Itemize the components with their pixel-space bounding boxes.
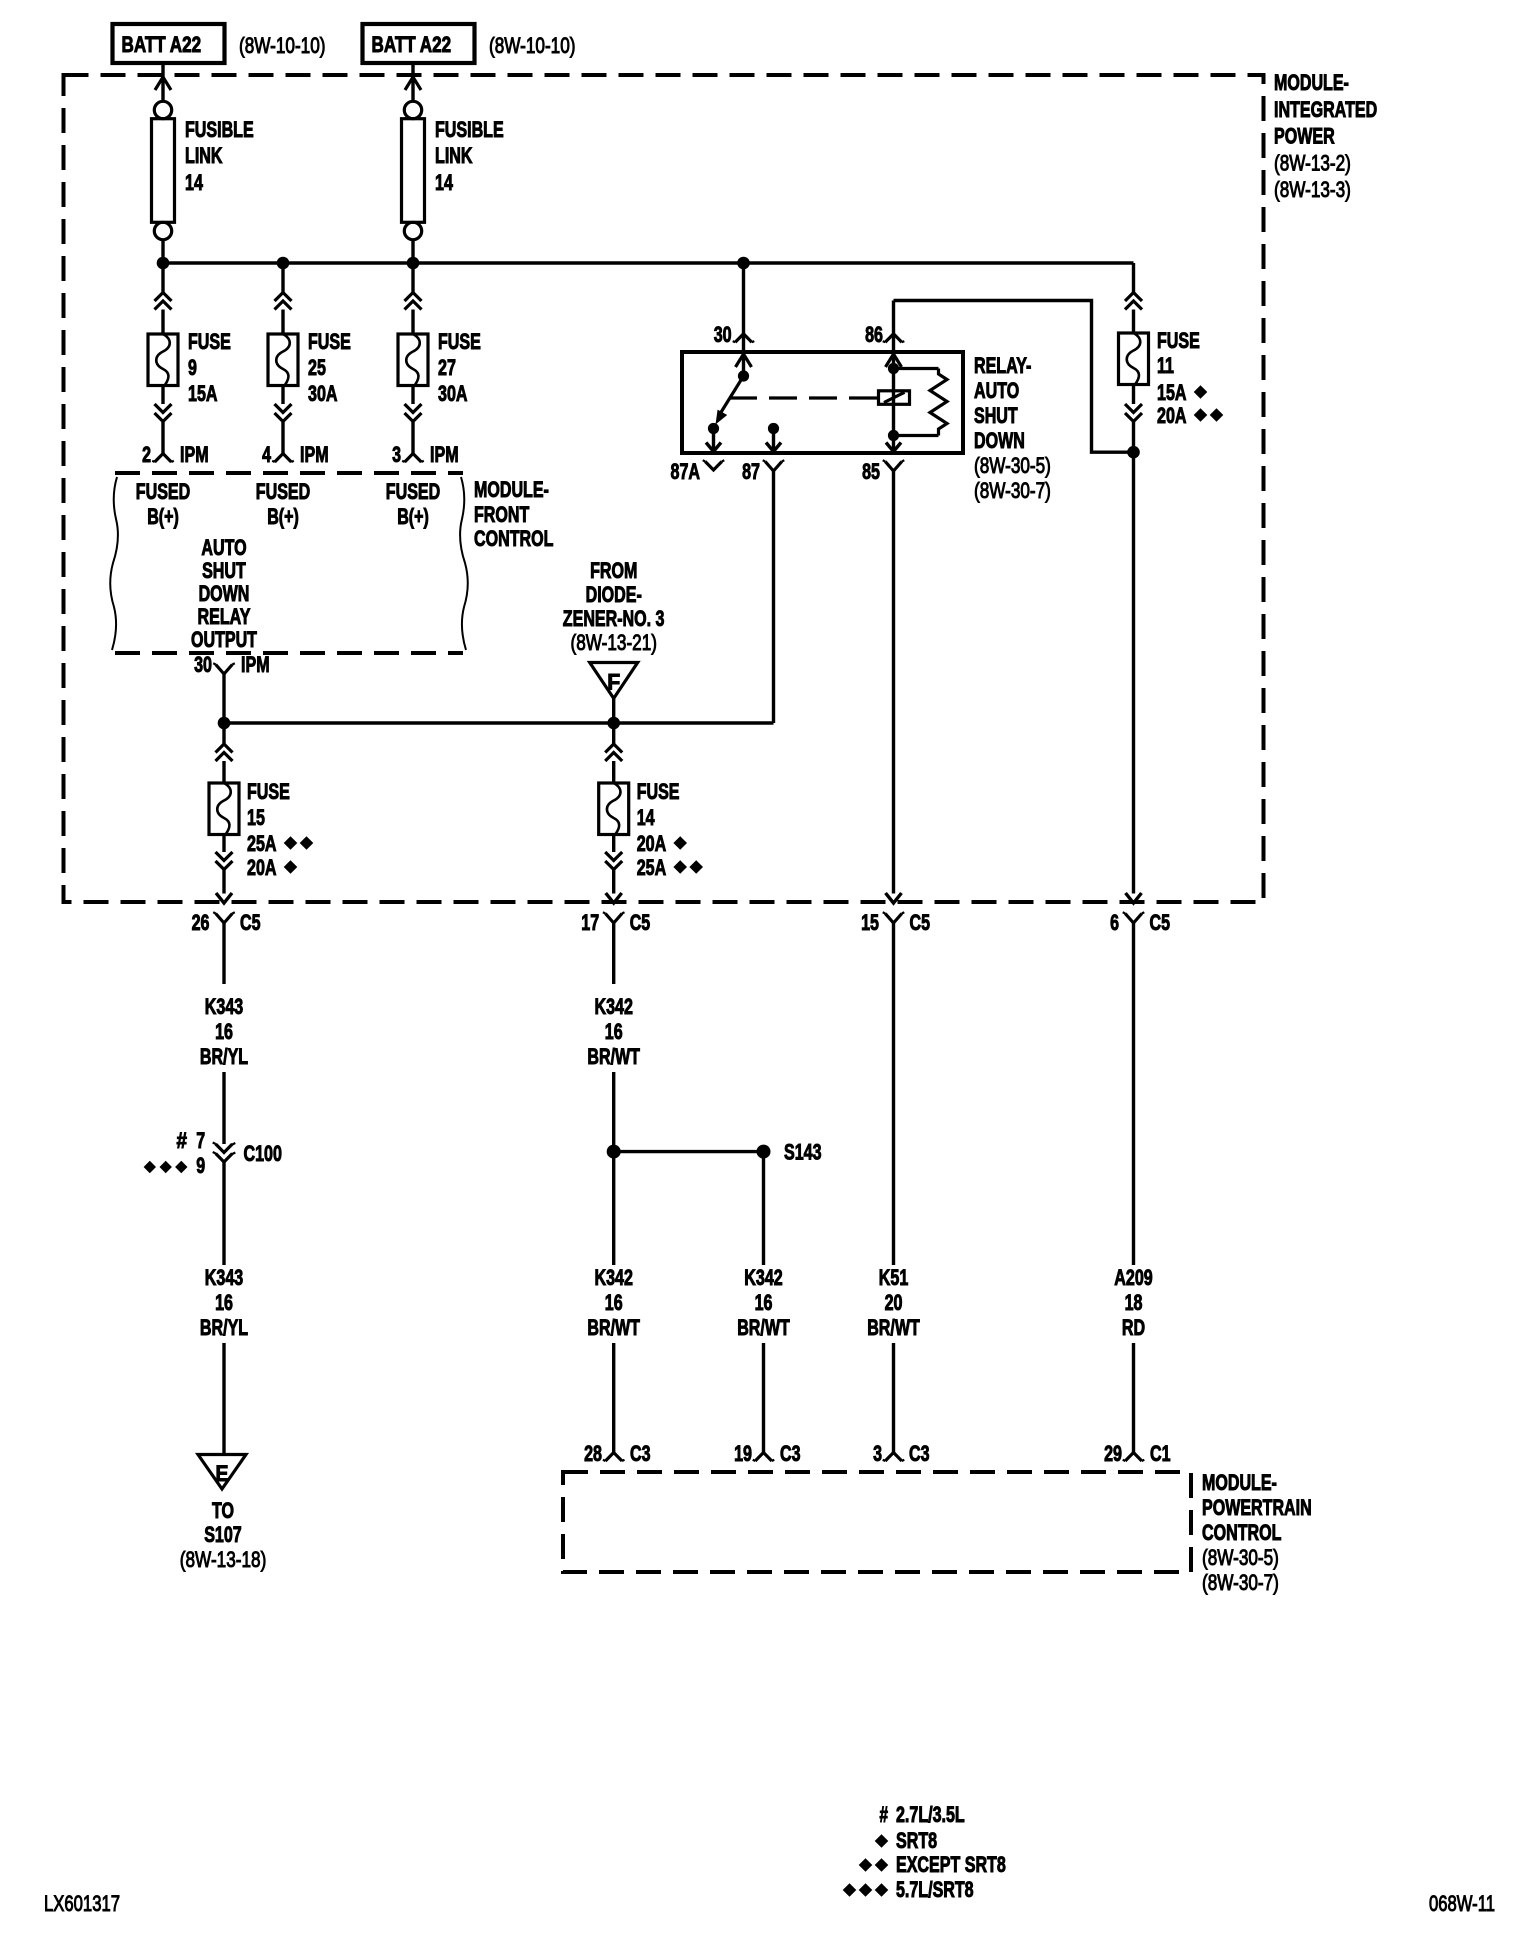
wire K342 branch to pin 19 xyxy=(762,1343,765,1453)
relay R1 auto shut down: outline xyxy=(682,352,963,453)
connector chevrons (down) xyxy=(405,404,422,413)
svg-text:FUSED: FUSED xyxy=(386,479,440,504)
relay pin 87A node xyxy=(708,423,719,434)
splice S143 tie wire xyxy=(614,1150,764,1153)
junction bus/fuse-25 xyxy=(277,257,290,270)
junction bus/fusible-link-1 xyxy=(157,257,170,270)
svg-text:LX601317: LX601317 xyxy=(44,1891,120,1916)
svg-text:FUSE: FUSE xyxy=(637,779,680,804)
connector 19 C3 xyxy=(755,1453,772,1462)
junction fuse 15 feed xyxy=(218,717,231,730)
fuse 11 xyxy=(1119,333,1149,385)
wire K51 upper xyxy=(892,923,895,1265)
svg-text:20A: 20A xyxy=(247,855,277,880)
svg-text:IPM: IPM xyxy=(241,652,270,677)
wire fusible link to bus xyxy=(411,240,414,263)
svg-text:11: 11 xyxy=(1157,353,1174,378)
connector 17 C5 xyxy=(605,914,622,924)
connector pin 4 IPM xyxy=(275,454,292,463)
wire F to junction xyxy=(612,698,615,723)
connector chevrons (up) xyxy=(605,744,622,753)
module-powertrain control dashed boundary xyxy=(563,1472,1191,1572)
svg-text:25A: 25A xyxy=(247,831,277,856)
relay actuator (coil core symbol) xyxy=(879,391,910,405)
svg-text:BR/WT: BR/WT xyxy=(867,1315,920,1340)
svg-text:25: 25 xyxy=(308,355,326,380)
svg-text:BR/YL: BR/YL xyxy=(200,1044,248,1069)
svg-text:TO: TO xyxy=(212,1498,234,1523)
wire S143 branch down xyxy=(762,1152,765,1265)
wire xyxy=(612,870,615,894)
fuse 27 30A xyxy=(398,334,428,386)
svg-text:20A: 20A xyxy=(1157,403,1187,428)
svg-text:INTEGRATED: INTEGRATED xyxy=(1274,97,1377,122)
wire bus to relay pin 30 xyxy=(742,263,745,352)
svg-text:14: 14 xyxy=(185,170,203,195)
relay pin 30 internal arrow xyxy=(736,354,752,367)
connector pin 2 IPM xyxy=(155,454,172,463)
svg-text:20: 20 xyxy=(885,1290,903,1315)
fuse 14 xyxy=(599,783,629,835)
svg-text:BATT A22: BATT A22 xyxy=(372,32,452,57)
connector chevrons (up) xyxy=(405,293,422,302)
svg-text:86: 86 xyxy=(865,322,883,347)
connector pin 30 IPM xyxy=(216,665,233,675)
svg-text:LINK: LINK xyxy=(185,143,223,168)
svg-text:18: 18 xyxy=(1125,1290,1143,1315)
connector chevrons (up) xyxy=(275,293,292,302)
fusible link 14 at x=163 xyxy=(154,101,171,118)
wire fuse 11 down to C5 xyxy=(1132,452,1135,893)
svg-text:C5: C5 xyxy=(1150,910,1171,935)
svg-text:FUSED: FUSED xyxy=(256,479,310,504)
svg-text:BR/YL: BR/YL xyxy=(200,1315,248,1340)
svg-text:BR/WT: BR/WT xyxy=(737,1315,790,1340)
power feed box BATT A22 (left) xyxy=(113,24,225,63)
svg-text:K343: K343 xyxy=(205,994,243,1019)
svg-text:28: 28 xyxy=(584,1441,602,1466)
junction bus/relay pin 30 xyxy=(737,257,750,270)
svg-text:CONTROL: CONTROL xyxy=(1202,1520,1281,1545)
wire below fuse xyxy=(222,835,225,853)
wire BATT to fusible link at x=413 xyxy=(411,63,414,102)
wire below fuse xyxy=(281,386,284,405)
svg-text:14: 14 xyxy=(435,170,453,195)
wire A209 upper xyxy=(1132,923,1135,1265)
svg-text:IPM: IPM xyxy=(180,442,209,467)
svg-text:RELAY: RELAY xyxy=(198,604,251,629)
svg-text:20A: 20A xyxy=(637,831,667,856)
wire xyxy=(1132,310,1135,334)
wire relay pin 86 to fuse 11 output xyxy=(894,301,1134,453)
svg-text:3: 3 xyxy=(392,442,401,467)
wire xyxy=(411,310,414,335)
svg-text:C5: C5 xyxy=(630,910,651,935)
svg-text:30A: 30A xyxy=(308,381,338,406)
svg-text:15: 15 xyxy=(247,805,265,830)
off-page connector E (to S107) xyxy=(198,1455,246,1490)
svg-text:19: 19 xyxy=(734,1441,752,1466)
svg-text:(8W-13-18): (8W-13-18) xyxy=(180,1547,266,1572)
connector chevrons (down) xyxy=(216,852,233,861)
svg-text:C100: C100 xyxy=(244,1141,282,1166)
svg-text:ZENER-NO. 3: ZENER-NO. 3 xyxy=(563,606,665,631)
svg-text:K51: K51 xyxy=(879,1265,909,1290)
relay pin 87 node xyxy=(768,423,779,434)
relay pin 85 connector xyxy=(885,462,902,472)
svg-text:16: 16 xyxy=(605,1290,623,1315)
svg-text:#: # xyxy=(177,1128,188,1153)
svg-text:DOWN: DOWN xyxy=(199,581,250,606)
svg-text:DOWN: DOWN xyxy=(974,428,1025,453)
svg-text:C1: C1 xyxy=(1150,1441,1171,1466)
svg-text:16: 16 xyxy=(215,1290,233,1315)
svg-text:F: F xyxy=(607,670,620,695)
svg-text:30A: 30A xyxy=(438,381,468,406)
svg-text:85: 85 xyxy=(862,459,880,484)
connector 28 C3 xyxy=(605,1453,622,1462)
wire below fuse xyxy=(411,386,414,405)
svg-text:FRONT: FRONT xyxy=(474,502,530,527)
wire C100 down xyxy=(222,1162,225,1265)
module-front control dashed boundary (torn box) xyxy=(115,471,463,475)
svg-text:3: 3 xyxy=(873,1441,882,1466)
svg-text:B(+): B(+) xyxy=(267,504,299,529)
wire below fuse 11 xyxy=(1132,385,1135,405)
svg-text:IPM: IPM xyxy=(430,442,459,467)
svg-text:17: 17 xyxy=(581,910,599,935)
wire K342 upper xyxy=(612,923,615,984)
svg-text:K342: K342 xyxy=(595,994,633,1019)
relay pin 30 connector xyxy=(735,334,752,343)
wire K343 to splice S107 xyxy=(222,1343,225,1455)
wire 87A node to box edge xyxy=(712,429,715,452)
svg-text:(8W-13-21): (8W-13-21) xyxy=(571,630,658,655)
wire junction to fuse 14 xyxy=(612,723,615,744)
wire K51 to pin 3 xyxy=(892,1343,895,1453)
relay coil wire xyxy=(892,369,895,436)
relay pin 87A stub connector xyxy=(705,462,722,471)
wire A209 to pin 29 xyxy=(1132,1343,1135,1453)
inline connector C100 xyxy=(216,1144,233,1153)
svg-text:16: 16 xyxy=(755,1290,773,1315)
svg-text:(8W-30-5): (8W-30-5) xyxy=(1202,1545,1279,1570)
svg-text:(8W-10-10): (8W-10-10) xyxy=(489,33,576,58)
wire xyxy=(161,310,164,335)
relay pin 87 connector xyxy=(765,462,782,472)
wire xyxy=(281,310,284,335)
svg-text:CONTROL: CONTROL xyxy=(474,526,553,551)
wire fusible link to bus xyxy=(161,240,164,263)
svg-text:87: 87 xyxy=(742,459,760,484)
svg-text:K342: K342 xyxy=(595,1265,633,1290)
connector 15 C5 xyxy=(885,914,902,924)
bus wire (battery feed) xyxy=(163,261,1134,265)
wire K342 to pin 28 xyxy=(612,1343,615,1453)
svg-text:FUSE: FUSE xyxy=(308,329,351,354)
relay switch common node xyxy=(738,370,749,381)
svg-text:E: E xyxy=(216,1461,229,1486)
wire relay pin 87 down to junction xyxy=(772,471,775,723)
svg-text:30: 30 xyxy=(714,322,732,347)
svg-text:FUSIBLE: FUSIBLE xyxy=(185,117,254,142)
fuse 15 xyxy=(209,783,239,835)
svg-text:SRT8: SRT8 xyxy=(896,1828,937,1853)
wire K343 upper xyxy=(222,923,225,984)
svg-text:30: 30 xyxy=(194,652,212,677)
wire relay pin 85 down to C5 xyxy=(892,471,895,894)
connector 26 C5 xyxy=(216,914,233,924)
svg-text:7: 7 xyxy=(196,1128,205,1153)
junction fuse 11 / relay 86 wire xyxy=(1127,446,1140,459)
svg-text:BATT A22: BATT A22 xyxy=(122,32,202,57)
svg-text:27: 27 xyxy=(438,355,456,380)
wire xyxy=(161,422,164,454)
wire 87 node to box edge xyxy=(772,429,775,452)
svg-text:FROM: FROM xyxy=(590,558,637,583)
wire bus corner down to fuse 11 xyxy=(1132,263,1135,293)
connector pin 3 IPM xyxy=(405,454,422,463)
svg-text:POWER: POWER xyxy=(1274,124,1335,149)
svg-text:S107: S107 xyxy=(204,1522,242,1547)
svg-text:29: 29 xyxy=(1104,1441,1122,1466)
wire pin 86 to coil top xyxy=(892,354,895,369)
svg-text:C5: C5 xyxy=(240,910,261,935)
svg-text:C5: C5 xyxy=(910,910,931,935)
junction diode-zener feed xyxy=(607,717,620,730)
connector chevrons (down) xyxy=(1125,404,1142,413)
wire BATT to fusible link at x=163 xyxy=(161,63,164,102)
relay pin 86 connector xyxy=(885,334,902,343)
svg-text:9: 9 xyxy=(188,355,197,380)
svg-text:FUSE: FUSE xyxy=(1157,328,1200,353)
connector chevrons (up) xyxy=(216,744,233,753)
wire pin 30 to switch common xyxy=(742,354,745,376)
connector chevrons (down) xyxy=(605,852,622,861)
wire xyxy=(1132,422,1135,453)
wire xyxy=(222,761,225,783)
svg-text:BR/WT: BR/WT xyxy=(587,1315,640,1340)
wire junction to fuse 15 xyxy=(222,723,225,744)
wire xyxy=(411,422,414,454)
svg-text:(8W-13-2): (8W-13-2) xyxy=(1274,151,1351,176)
fuse 9 15A xyxy=(148,334,178,386)
fusible link 14 at x=413 xyxy=(404,101,421,118)
svg-text:2: 2 xyxy=(142,442,151,467)
wire coil to pin 85 edge xyxy=(892,436,895,452)
svg-text:FUSIBLE: FUSIBLE xyxy=(435,117,504,142)
svg-text:OUTPUT: OUTPUT xyxy=(191,627,257,652)
svg-text:6: 6 xyxy=(1110,910,1119,935)
svg-text:C3: C3 xyxy=(630,1441,651,1466)
svg-text:RELAY-: RELAY- xyxy=(974,353,1031,378)
svg-text:K343: K343 xyxy=(205,1265,243,1290)
svg-text:FUSE: FUSE xyxy=(247,779,290,804)
svg-text:EXCEPT SRT8: EXCEPT SRT8 xyxy=(896,1852,1006,1877)
relay mechanical link (dashed) xyxy=(729,396,877,399)
connector chevrons (down) xyxy=(275,404,292,413)
svg-text:A209: A209 xyxy=(1114,1265,1152,1290)
wire bus to fuse 25 xyxy=(281,263,284,293)
wire below fuse xyxy=(161,386,164,405)
svg-text:K342: K342 xyxy=(744,1265,782,1290)
svg-text:4: 4 xyxy=(262,442,271,467)
connector chevrons (up) xyxy=(1125,293,1142,302)
splice S143 xyxy=(757,1145,771,1159)
svg-text:(8W-30-7): (8W-30-7) xyxy=(1202,1570,1279,1595)
svg-text:S143: S143 xyxy=(784,1140,822,1165)
connector 29 C1 xyxy=(1125,1453,1142,1462)
svg-text:14: 14 xyxy=(637,805,655,830)
svg-text:#: # xyxy=(880,1802,889,1827)
svg-text:5.7L/SRT8: 5.7L/SRT8 xyxy=(896,1877,974,1902)
svg-text:FUSE: FUSE xyxy=(438,329,481,354)
svg-text:FUSE: FUSE xyxy=(188,329,231,354)
svg-text:IPM: IPM xyxy=(300,442,329,467)
wire bus to fuse 27 xyxy=(411,263,414,293)
off-page connector F (from diode-zener no.3) xyxy=(590,663,638,699)
wire auto shut down relay output xyxy=(224,721,774,725)
svg-text:FUSED: FUSED xyxy=(136,479,190,504)
coil bottom node xyxy=(888,430,899,441)
svg-text:15A: 15A xyxy=(1157,380,1187,405)
power feed box BATT A22 (right) xyxy=(363,24,475,63)
svg-text:C3: C3 xyxy=(909,1441,930,1466)
wire bus to fuse 9 xyxy=(161,263,164,293)
svg-text:SHUT: SHUT xyxy=(974,403,1018,428)
module-integrated power dashed boundary xyxy=(64,75,1264,902)
connector 6 C5 xyxy=(1125,914,1142,924)
wire 86 feed into relay xyxy=(892,301,895,353)
junction bus/fusible-link-2 xyxy=(407,257,420,270)
svg-text:MODULE-: MODULE- xyxy=(474,477,549,502)
relay coil suppression resistor xyxy=(894,367,939,370)
svg-text:068W-11: 068W-11 xyxy=(1429,1891,1495,1916)
svg-text:POWERTRAIN: POWERTRAIN xyxy=(1202,1495,1312,1520)
wire below fuse xyxy=(612,835,615,853)
wire K343 to C100 xyxy=(222,1072,225,1144)
connector chevrons (up) xyxy=(155,293,172,302)
svg-text:BR/WT: BR/WT xyxy=(587,1044,640,1069)
svg-text:26: 26 xyxy=(192,910,210,935)
svg-text:(8W-30-7): (8W-30-7) xyxy=(974,478,1051,503)
svg-text:15: 15 xyxy=(861,910,879,935)
wire xyxy=(612,761,615,783)
coil top node xyxy=(888,363,899,374)
wire xyxy=(281,422,284,454)
svg-text:16: 16 xyxy=(215,1019,233,1044)
svg-text:DIODE-: DIODE- xyxy=(586,582,642,607)
wire K342 through splice xyxy=(612,1072,615,1265)
relay pin 86 internal arrow xyxy=(886,354,902,367)
svg-text:9: 9 xyxy=(196,1153,205,1178)
svg-text:AUTO: AUTO xyxy=(201,535,246,560)
svg-text:15A: 15A xyxy=(188,381,218,406)
svg-text:MODULE-: MODULE- xyxy=(1274,70,1349,95)
connector chevrons (down) xyxy=(155,404,172,413)
splice junction left xyxy=(607,1145,621,1159)
svg-text:(8W-30-5): (8W-30-5) xyxy=(974,453,1051,478)
connector 3 C3 xyxy=(885,1453,902,1462)
svg-text:(8W-13-3): (8W-13-3) xyxy=(1274,177,1351,202)
svg-text:B(+): B(+) xyxy=(397,504,429,529)
wire xyxy=(222,870,225,894)
svg-text:AUTO: AUTO xyxy=(974,378,1019,403)
fuse 25 30A xyxy=(268,334,298,386)
svg-text:16: 16 xyxy=(605,1019,623,1044)
svg-text:MODULE-: MODULE- xyxy=(1202,1470,1277,1495)
svg-text:LINK: LINK xyxy=(435,143,473,168)
svg-text:C3: C3 xyxy=(780,1441,801,1466)
svg-text:(8W-10-10): (8W-10-10) xyxy=(239,33,326,58)
svg-text:SHUT: SHUT xyxy=(202,558,246,583)
svg-text:2.7L/3.5L: 2.7L/3.5L xyxy=(896,1802,965,1827)
svg-text:B(+): B(+) xyxy=(147,504,179,529)
wire 30 IPM to junction xyxy=(222,674,225,723)
svg-text:87A: 87A xyxy=(671,459,701,484)
svg-text:RD: RD xyxy=(1122,1315,1145,1340)
relay switch arm (30 to 87A) xyxy=(719,376,744,416)
svg-text:25A: 25A xyxy=(637,855,667,880)
